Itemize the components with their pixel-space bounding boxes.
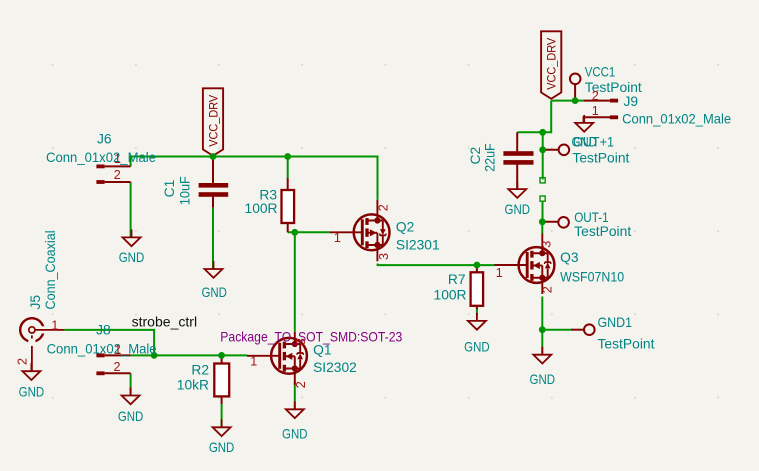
svg-text:Q1: Q1 xyxy=(313,343,331,358)
svg-text:1: 1 xyxy=(250,354,257,368)
svg-text:GND: GND xyxy=(209,440,235,455)
svg-text:R7: R7 xyxy=(448,272,466,287)
svg-text:2: 2 xyxy=(114,168,121,182)
svg-text:2: 2 xyxy=(541,286,555,293)
svg-text:3: 3 xyxy=(294,338,308,345)
svg-text:GND: GND xyxy=(118,409,144,424)
svg-text:R2: R2 xyxy=(191,362,209,377)
svg-text:GND: GND xyxy=(201,285,227,300)
svg-text:TestPoint: TestPoint xyxy=(574,224,631,239)
svg-text:GND: GND xyxy=(464,340,490,355)
svg-text:2: 2 xyxy=(294,381,308,388)
svg-text:GND: GND xyxy=(119,250,145,265)
svg-text:1: 1 xyxy=(114,343,121,357)
svg-text:Q2: Q2 xyxy=(396,220,414,235)
svg-text:Q3: Q3 xyxy=(560,250,579,265)
svg-text:J6: J6 xyxy=(97,132,112,147)
svg-text:J9: J9 xyxy=(624,94,639,109)
svg-text:Conn_Coaxial: Conn_Coaxial xyxy=(43,231,58,310)
svg-text:2: 2 xyxy=(592,89,599,103)
svg-text:Conn_01x02_Male: Conn_01x02_Male xyxy=(46,150,156,165)
svg-text:C1: C1 xyxy=(162,180,177,198)
svg-text:GND1: GND1 xyxy=(598,315,633,330)
svg-text:SI2301: SI2301 xyxy=(396,238,440,253)
svg-text:100R: 100R xyxy=(434,287,467,302)
svg-text:2: 2 xyxy=(114,360,121,374)
svg-text:10uF: 10uF xyxy=(178,176,193,205)
svg-text:VCC_DRV: VCC_DRV xyxy=(545,37,559,90)
svg-text:GND: GND xyxy=(282,427,308,442)
svg-text:1: 1 xyxy=(496,266,503,280)
svg-text:TestPoint: TestPoint xyxy=(598,337,655,352)
svg-text:J8: J8 xyxy=(96,323,111,338)
svg-text:J5: J5 xyxy=(28,295,43,310)
svg-text:1: 1 xyxy=(334,231,341,245)
svg-text:3: 3 xyxy=(377,253,391,260)
svg-text:VCC1: VCC1 xyxy=(585,65,616,80)
svg-text:100R: 100R xyxy=(245,201,278,216)
svg-text:Package_TO_SOT_SMD:SOT-23: Package_TO_SOT_SMD:SOT-23 xyxy=(220,329,402,344)
svg-text:GND: GND xyxy=(505,202,531,217)
svg-text:GND: GND xyxy=(19,385,45,400)
svg-text:GND: GND xyxy=(530,372,556,387)
svg-text:1: 1 xyxy=(114,152,121,166)
svg-text:1: 1 xyxy=(51,318,58,332)
svg-text:Conn_01x02_Male: Conn_01x02_Male xyxy=(47,341,157,356)
svg-text:C2: C2 xyxy=(468,147,483,165)
svg-text:22uF: 22uF xyxy=(482,143,497,172)
svg-text:1: 1 xyxy=(592,104,599,118)
svg-text:3: 3 xyxy=(540,241,554,248)
svg-text:OUT-1: OUT-1 xyxy=(574,210,609,225)
svg-text:WSF07N10: WSF07N10 xyxy=(560,270,624,285)
svg-text:2: 2 xyxy=(377,204,391,211)
svg-text:strobe_ctrl: strobe_ctrl xyxy=(132,315,198,330)
svg-text:OUT+1: OUT+1 xyxy=(573,135,614,150)
svg-text:Conn_01x02_Male: Conn_01x02_Male xyxy=(622,112,731,127)
svg-text:VCC_DRV: VCC_DRV xyxy=(206,94,220,147)
svg-text:2: 2 xyxy=(16,358,30,365)
svg-text:SI2302: SI2302 xyxy=(313,360,357,375)
svg-text:TestPoint: TestPoint xyxy=(572,151,629,166)
svg-text:10kR: 10kR xyxy=(177,378,209,393)
